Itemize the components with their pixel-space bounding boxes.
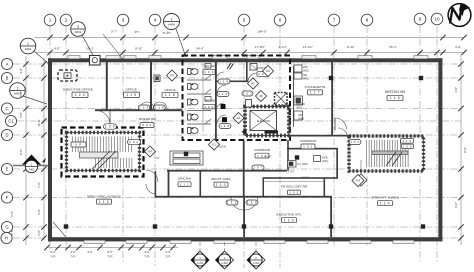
svg-text:8'-4½": 8'-4½" <box>163 31 171 35</box>
svg-text:MEETING RM: MEETING RM <box>385 90 406 94</box>
grid bubble 4 <box>149 14 161 26</box>
section marker 1/A-201 <box>191 242 209 269</box>
svg-text:1 0 3: 1 0 3 <box>289 191 298 195</box>
mail/reception wall <box>200 171 202 196</box>
svg-text:1 1 0: 1 1 0 <box>216 183 226 187</box>
svg-text:3'-0": 3'-0" <box>50 250 56 254</box>
stair 2 center rail <box>372 151 408 155</box>
grid bubble C <box>1 103 12 114</box>
svg-text:4'-0": 4'-0" <box>10 230 14 236</box>
svg-text:4: 4 <box>154 18 157 23</box>
svg-text:FM (NIC) COPY RM: FM (NIC) COPY RM <box>281 185 308 189</box>
svg-text:1 1 3: 1 1 3 <box>284 218 294 222</box>
svg-text:45'-8": 45'-8" <box>37 119 41 126</box>
diamond Z6 <box>256 91 267 102</box>
svg-text:1 1 8: 1 1 8 <box>155 106 165 110</box>
partition wall office 119/118 <box>150 62 152 110</box>
svg-text:1 2 0: 1 2 0 <box>75 93 85 97</box>
dimension texts left <box>10 68 41 236</box>
svg-text:3'-7": 3'-7" <box>111 30 117 34</box>
svg-text:KITCHENETTE: KITCHENETTE <box>305 85 326 89</box>
svg-text:FC (NIC): FC (NIC) <box>298 162 309 166</box>
svg-text:REFER: REFER <box>296 102 305 106</box>
svg-text:A403: A403 <box>29 168 35 171</box>
svg-text:2: 2 <box>65 18 68 23</box>
door arcs offices 119/118 <box>140 102 154 109</box>
svg-text:A: A <box>6 62 9 67</box>
svg-text:1 1 8: 1 1 8 <box>165 93 175 97</box>
grid bubble 2 <box>60 14 72 26</box>
corridor 102 east wall <box>287 140 289 171</box>
grid bubble 1 <box>44 14 56 26</box>
svg-text:9: 9 <box>419 17 422 22</box>
leader lines <box>103 34 122 58</box>
core fire wall dashed boundary <box>183 56 291 141</box>
diamond F5 <box>167 70 178 81</box>
grid bubble 9 <box>414 13 426 25</box>
dimension line left outer <box>25 56 27 245</box>
svg-text:15'-1": 15'-1" <box>389 45 397 49</box>
svg-text:1 1 3: 1 1 3 <box>247 201 258 205</box>
restroom partition rows <box>187 80 211 124</box>
svg-text:8'-11": 8'-11" <box>347 45 354 49</box>
grid bubble G <box>1 221 12 232</box>
svg-text:1 1 2: 1 1 2 <box>99 200 109 204</box>
svg-text:4'-0": 4'-0" <box>455 45 461 49</box>
svg-text:1'-0": 1'-0" <box>154 156 159 160</box>
grid bubble 7 <box>328 14 340 26</box>
diamond P1 <box>248 78 259 89</box>
section marker 1/A403 at row E <box>13 155 48 173</box>
hoistway column hatched <box>275 93 288 106</box>
svg-text:1 1 5: 1 1 5 <box>218 92 227 96</box>
door corridor to meeting room <box>335 118 347 130</box>
corridor 101 south wall <box>287 148 338 150</box>
stall doors <box>205 75 211 124</box>
svg-text:6'-0": 6'-0" <box>37 209 41 215</box>
grid bubble F <box>1 192 12 203</box>
svg-text:C: C <box>5 106 8 111</box>
svg-text:8'-1½": 8'-1½" <box>279 45 287 49</box>
svg-text:3½": 3½" <box>134 30 139 34</box>
entry vestibule detail box on top wall <box>90 56 101 66</box>
svg-text:4'-0": 4'-0" <box>165 250 171 254</box>
svg-text:1 1 1: 1 1 1 <box>180 182 190 186</box>
svg-text:6'-0": 6'-0" <box>454 202 458 208</box>
dashed furniture executive office <box>58 70 77 81</box>
elevator machine box <box>246 100 252 108</box>
svg-text:1 1 5: 1 1 5 <box>220 124 229 128</box>
svg-text:TYP.: TYP. <box>107 255 113 259</box>
double door south entry <box>231 198 244 211</box>
svg-text:CORRIDOR: CORRIDOR <box>254 148 271 152</box>
svg-text:1 0 7: 1 0 7 <box>350 140 359 144</box>
svg-text:14'-3¾": 14'-3¾" <box>303 45 313 49</box>
svg-text:6'-0": 6'-0" <box>10 211 14 217</box>
diamond F4 copy <box>352 175 364 187</box>
open office / mail wall <box>168 170 170 197</box>
svg-text:RCB: RCB <box>322 156 328 160</box>
core wall restroom east <box>215 62 217 140</box>
svg-text:1'-3¾": 1'-3¾" <box>287 170 294 174</box>
svg-text:8: 8 <box>366 18 369 23</box>
stair 1 center rail <box>80 152 119 158</box>
mail boxes casework <box>170 151 203 165</box>
diamond F4 stair 2 <box>360 160 362 174</box>
grid bubble 3 <box>117 14 129 26</box>
svg-text:7'-0": 7'-0" <box>37 182 41 188</box>
section marker 2/A-620 <box>247 242 265 269</box>
grid bubble A <box>1 58 12 69</box>
svg-text:(NIC): (NIC) <box>303 78 309 81</box>
svg-text:6: 6 <box>279 18 282 23</box>
svg-text:GB: GB <box>298 113 302 117</box>
svg-text:1 0 4: 1 0 4 <box>204 70 213 74</box>
svg-text:OPEN OFFIC (AGENTS): OPEN OFFIC (AGENTS) <box>87 194 122 198</box>
svg-text:3: 3 <box>77 25 79 29</box>
corridor 102 west wall <box>243 141 245 198</box>
windows top wall <box>68 56 428 59</box>
svg-text:1: 1 <box>49 18 52 23</box>
svg-text:F: F <box>6 195 9 200</box>
svg-text:(NIC): (NIC) <box>322 159 328 163</box>
partition wall south of offices <box>95 109 183 111</box>
svg-text:ELEVATOR: ELEVATOR <box>257 120 270 123</box>
stair 1 door <box>146 170 158 182</box>
svg-text:G: G <box>5 225 8 230</box>
svg-text:1 1 9: 1 1 9 <box>139 106 149 110</box>
svg-text:1 0 7: 1 0 7 <box>253 166 262 170</box>
svg-text:4'-8": 4'-8" <box>19 68 23 74</box>
grid lines horizontal <box>13 64 461 238</box>
svg-text:TYP.: TYP. <box>50 255 56 259</box>
svg-text:1 2 0: 1 2 0 <box>105 125 116 129</box>
svg-text:MAIL RM: MAIL RM <box>178 177 191 181</box>
detail callout 1/A404 <box>176 29 186 57</box>
section marker 1/A-620 <box>216 242 234 269</box>
svg-text:OFFICE: OFFICE <box>164 88 175 92</box>
svg-text:F1: F1 <box>212 143 216 147</box>
stair 2 break line <box>386 152 396 166</box>
svg-text:8'-0": 8'-0" <box>19 149 23 155</box>
svg-text:A-620: A-620 <box>253 262 260 265</box>
grid bubble 10 <box>431 13 443 25</box>
svg-text:8'-0": 8'-0" <box>107 250 113 254</box>
janitor wall <box>246 62 248 82</box>
svg-text:BOILER RM: BOILER RM <box>139 117 156 121</box>
wc door arcs <box>216 72 224 80</box>
partition near grid 4 <box>155 171 157 196</box>
svg-text:OFFICE: OFFICE <box>125 88 136 92</box>
svg-text:1 0 9: 1 0 9 <box>403 145 412 149</box>
svg-text:3: 3 <box>122 18 125 23</box>
svg-text:8'-0": 8'-0" <box>463 147 467 153</box>
door tick marks <box>227 63 231 69</box>
svg-text:OPEN OFC'S (ADA): OPEN OFC'S (ADA) <box>371 196 399 200</box>
stair 1 hatched wall <box>67 133 140 171</box>
kitchenette counter <box>293 66 295 127</box>
door tags offices <box>138 105 150 110</box>
svg-text:TYP.: TYP. <box>165 255 171 259</box>
detail callout 1/A601 left <box>34 51 50 65</box>
svg-text:7: 7 <box>333 18 336 23</box>
svg-text:F4: F4 <box>148 150 152 154</box>
vestibule wall <box>336 148 338 178</box>
stair 2 hatched wall <box>349 136 424 171</box>
grid bubble H <box>1 232 12 243</box>
diamond F4 near stair 1 <box>145 146 156 157</box>
svg-text:EXECUTIVE OFFICE: EXECUTIVE OFFICE <box>63 88 93 92</box>
diamond F6 <box>263 66 274 77</box>
grid bubble D <box>1 129 12 140</box>
svg-text:0 0 2: 0 0 2 <box>142 123 152 127</box>
svg-text:U P: U P <box>75 143 82 147</box>
svg-text:CORRIDOR: CORRIDOR <box>300 139 317 143</box>
stair 2 tags <box>349 140 361 145</box>
svg-text:4'-0": 4'-0" <box>70 250 76 254</box>
svg-text:A-620: A-620 <box>221 262 228 265</box>
detail callout 1/A403 left <box>23 96 47 104</box>
stair 2 treads <box>367 140 409 167</box>
corridor 102 south wall <box>167 170 287 172</box>
svg-text:WC (M): WC (M) <box>205 99 215 103</box>
svg-text:TYP.: TYP. <box>144 255 150 259</box>
grid lines vertical <box>50 26 437 268</box>
svg-text:(NIC): (NIC) <box>298 117 304 121</box>
stair 1 treads upper flight <box>73 137 132 169</box>
svg-text:TYP.: TYP. <box>70 255 76 259</box>
grid bubble C1 <box>5 115 16 126</box>
svg-text:10: 10 <box>434 17 440 22</box>
exterior wall top <box>48 58 442 62</box>
svg-text:104'-0": 104'-0" <box>257 30 266 34</box>
elevator shaft hatched wall <box>245 107 289 136</box>
svg-text:0 0 2: 0 0 2 <box>129 140 138 144</box>
core corridor door arcs <box>217 85 226 94</box>
dimension line overall top <box>35 37 464 39</box>
svg-text:Z6: Z6 <box>259 94 263 98</box>
svg-text:1 1 6: 1 1 6 <box>402 139 411 143</box>
svg-text:0 0 3: 0 0 3 <box>243 92 252 96</box>
svg-text:A601: A601 <box>74 30 81 34</box>
windows bottom wall <box>84 240 414 243</box>
small box near F5 <box>154 75 160 82</box>
svg-text:RECPT. AREA: RECPT. AREA <box>211 177 231 181</box>
svg-text:1 0 6: 1 0 6 <box>204 105 213 109</box>
dark fixtures wc <box>221 104 226 109</box>
svg-text:P1: P1 <box>251 82 255 86</box>
door exec office <box>96 111 110 125</box>
svg-text:15'-1": 15'-1" <box>86 47 94 51</box>
dimension line bottom <box>47 247 178 249</box>
elevator cab <box>250 111 277 131</box>
corridor 101 north wall <box>287 135 350 137</box>
diamond FA <box>233 113 244 124</box>
svg-text:ALIGN: ALIGN <box>301 176 309 180</box>
svg-text:1 0 1: 1 0 1 <box>303 145 313 149</box>
exterior wall bottom <box>48 237 442 241</box>
svg-text:5: 5 <box>243 18 246 23</box>
copy room fixtures <box>288 156 321 168</box>
svg-text:A601: A601 <box>24 47 31 51</box>
svg-text:4'-0": 4'-0" <box>54 47 60 51</box>
svg-text:EXECUTIVE OFC: EXECUTIVE OFC <box>277 213 303 217</box>
exterior wall left <box>48 58 52 241</box>
svg-text:E: E <box>6 167 9 172</box>
svg-text:D: D <box>5 133 8 138</box>
svg-text:4'-0": 4'-0" <box>87 250 93 254</box>
janitor mop sink <box>250 64 257 71</box>
dimension line left inner <box>43 58 45 240</box>
svg-text:A-201: A-201 <box>197 262 204 265</box>
svg-text:F6: F6 <box>266 69 270 73</box>
toilets <box>188 69 199 134</box>
svg-text:8'-11": 8'-11" <box>135 47 142 51</box>
diamond F1 <box>209 139 220 150</box>
svg-text:1 1 9: 1 1 9 <box>219 80 228 84</box>
exterior wall right <box>438 58 442 241</box>
grid bubble E <box>1 163 12 174</box>
copy room walls <box>263 177 339 179</box>
dimension line right <box>460 56 462 245</box>
grid bubble 6 <box>274 14 286 26</box>
svg-text:4'-0": 4'-0" <box>454 87 458 93</box>
svg-text:4'-0": 4'-0" <box>144 250 150 254</box>
svg-text:17'-8½": 17'-8½" <box>255 45 265 49</box>
svg-text:(NIC): (NIC) <box>303 70 309 73</box>
wall south of mail & reception <box>155 196 332 198</box>
grid bubble 5 <box>238 14 250 26</box>
detail callout 3/A601 <box>82 35 94 57</box>
grid bubble B <box>1 72 12 83</box>
svg-text:1 1 6: 1 1 6 <box>390 96 400 100</box>
svg-text:8'-0": 8'-0" <box>19 91 23 97</box>
svg-text:4'-0": 4'-0" <box>37 230 41 236</box>
svg-text:B: B <box>6 76 9 81</box>
svg-text:1: 1 <box>27 42 29 46</box>
svg-text:1: 1 <box>171 17 173 21</box>
stall front line <box>202 64 204 132</box>
svg-text:1 1 7: 1 1 7 <box>310 91 320 95</box>
svg-text:6'-8": 6'-8" <box>19 112 23 118</box>
svg-text:FA: FA <box>237 116 241 120</box>
structural columns <box>64 76 425 229</box>
stair 1 break line <box>92 151 110 169</box>
grid bubble 8 <box>361 14 373 26</box>
svg-text:1: 1 <box>17 86 19 90</box>
stair 2 door <box>338 128 348 138</box>
wall between 112 and 113 <box>243 197 245 237</box>
svg-text:1 1 4: 1 1 4 <box>380 201 390 205</box>
svg-text:4'-0¾": 4'-0¾" <box>264 155 271 159</box>
kitchenette east wall <box>331 62 333 136</box>
svg-text:F5: F5 <box>170 74 174 78</box>
dimension texts top <box>54 30 461 51</box>
svg-text:C1: C1 <box>8 119 14 124</box>
svg-text:1 1 2: 1 1 2 <box>227 201 238 205</box>
partition wall exec office right <box>106 62 108 111</box>
elevator door sill <box>265 131 279 134</box>
dimension line top second <box>35 52 464 54</box>
svg-text:F4: F4 <box>356 179 360 183</box>
svg-text:(NIC): (NIC) <box>296 106 302 110</box>
svg-text:H: H <box>5 236 8 241</box>
svg-text:24'-0": 24'-0" <box>196 47 204 51</box>
stair 1 tags <box>104 124 117 129</box>
svg-text:WC (W): WC (W) <box>205 64 216 68</box>
sinks <box>205 64 211 102</box>
wall east of exec ofc 113 <box>330 196 332 237</box>
svg-text:A404: A404 <box>168 23 175 27</box>
north arrow <box>448 4 471 27</box>
toilet flush dots <box>192 68 194 129</box>
svg-text:1 1 9: 1 1 9 <box>126 93 136 97</box>
stair 1 dashed enclosure <box>62 128 144 177</box>
